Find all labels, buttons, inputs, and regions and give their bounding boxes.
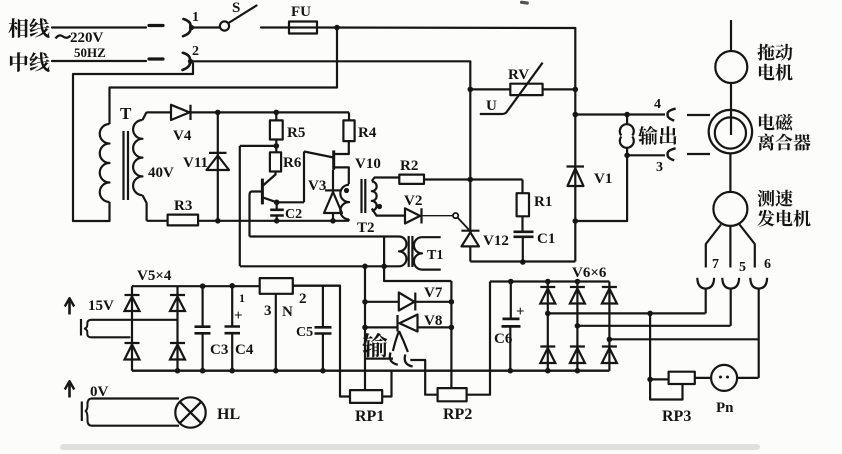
svg-text:1: 1 bbox=[239, 291, 245, 305]
svg-text:N: N bbox=[282, 304, 293, 320]
svg-text:T2: T2 bbox=[357, 220, 375, 236]
svg-text:15V: 15V bbox=[88, 298, 114, 314]
svg-text:Pn: Pn bbox=[716, 400, 734, 416]
svg-text:40V: 40V bbox=[148, 165, 174, 181]
svg-text:+: + bbox=[234, 308, 243, 324]
svg-text:V2: V2 bbox=[404, 193, 422, 209]
svg-text:RP3: RP3 bbox=[662, 408, 691, 425]
svg-text:T1: T1 bbox=[427, 248, 443, 263]
svg-text:3: 3 bbox=[264, 303, 272, 319]
svg-text:6: 6 bbox=[764, 257, 771, 272]
svg-text:C1: C1 bbox=[537, 231, 555, 247]
svg-text:RP2: RP2 bbox=[443, 406, 472, 423]
svg-text:V8: V8 bbox=[424, 313, 442, 329]
svg-text:V3: V3 bbox=[308, 178, 326, 194]
svg-text:V6×6: V6×6 bbox=[572, 265, 607, 281]
svg-text:R2: R2 bbox=[400, 158, 418, 174]
svg-text:50HZ: 50HZ bbox=[74, 45, 106, 60]
svg-text:0V: 0V bbox=[90, 384, 109, 400]
svg-text:C2: C2 bbox=[285, 207, 302, 222]
svg-text:R6: R6 bbox=[283, 155, 302, 171]
svg-text:2: 2 bbox=[192, 44, 199, 59]
svg-text:5: 5 bbox=[739, 260, 746, 275]
svg-text:V10: V10 bbox=[355, 156, 381, 172]
svg-text:R5: R5 bbox=[287, 125, 305, 141]
svg-text:FU: FU bbox=[291, 4, 311, 20]
svg-text:V7: V7 bbox=[424, 285, 443, 301]
svg-text:RP1: RP1 bbox=[355, 408, 384, 425]
svg-text:T: T bbox=[120, 104, 132, 123]
svg-text:3: 3 bbox=[656, 160, 663, 175]
svg-text:S: S bbox=[232, 0, 240, 16]
svg-text:1: 1 bbox=[192, 10, 199, 25]
svg-text:RV: RV bbox=[508, 67, 529, 83]
svg-text:+: + bbox=[516, 304, 525, 320]
svg-text:HL: HL bbox=[217, 406, 240, 423]
svg-text:V1: V1 bbox=[594, 171, 612, 187]
svg-text:V5×4: V5×4 bbox=[137, 268, 172, 284]
svg-text:R1: R1 bbox=[534, 194, 552, 210]
svg-text:4: 4 bbox=[654, 97, 661, 112]
svg-text:220V: 220V bbox=[70, 30, 104, 46]
svg-text:C6: C6 bbox=[494, 331, 513, 347]
svg-text:R3: R3 bbox=[174, 198, 192, 214]
svg-text:V4: V4 bbox=[173, 128, 192, 144]
svg-text:C5: C5 bbox=[296, 325, 313, 340]
svg-text:7: 7 bbox=[712, 257, 719, 272]
svg-text:C4: C4 bbox=[235, 342, 254, 358]
svg-text:V12: V12 bbox=[483, 233, 509, 249]
svg-text:U: U bbox=[486, 98, 497, 114]
svg-text:R4: R4 bbox=[358, 125, 377, 141]
svg-text:C3: C3 bbox=[210, 342, 228, 358]
svg-text:2: 2 bbox=[299, 291, 307, 307]
svg-text:V11: V11 bbox=[183, 155, 208, 171]
